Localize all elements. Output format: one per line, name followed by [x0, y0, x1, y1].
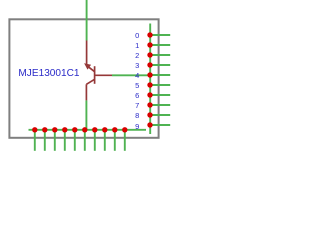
svg-text:6: 6	[135, 91, 139, 100]
svg-text:8: 8	[135, 111, 139, 120]
svg-text:9: 9	[135, 122, 139, 131]
svg-text:1: 1	[135, 41, 139, 50]
svg-text:0: 0	[135, 31, 139, 40]
svg-text:3: 3	[135, 61, 139, 70]
svg-text:2: 2	[135, 51, 139, 60]
svg-text:MJE13001C1: MJE13001C1	[18, 68, 80, 79]
svg-text:5: 5	[135, 81, 139, 90]
svg-text:4: 4	[135, 71, 139, 80]
svg-text:7: 7	[135, 101, 139, 110]
